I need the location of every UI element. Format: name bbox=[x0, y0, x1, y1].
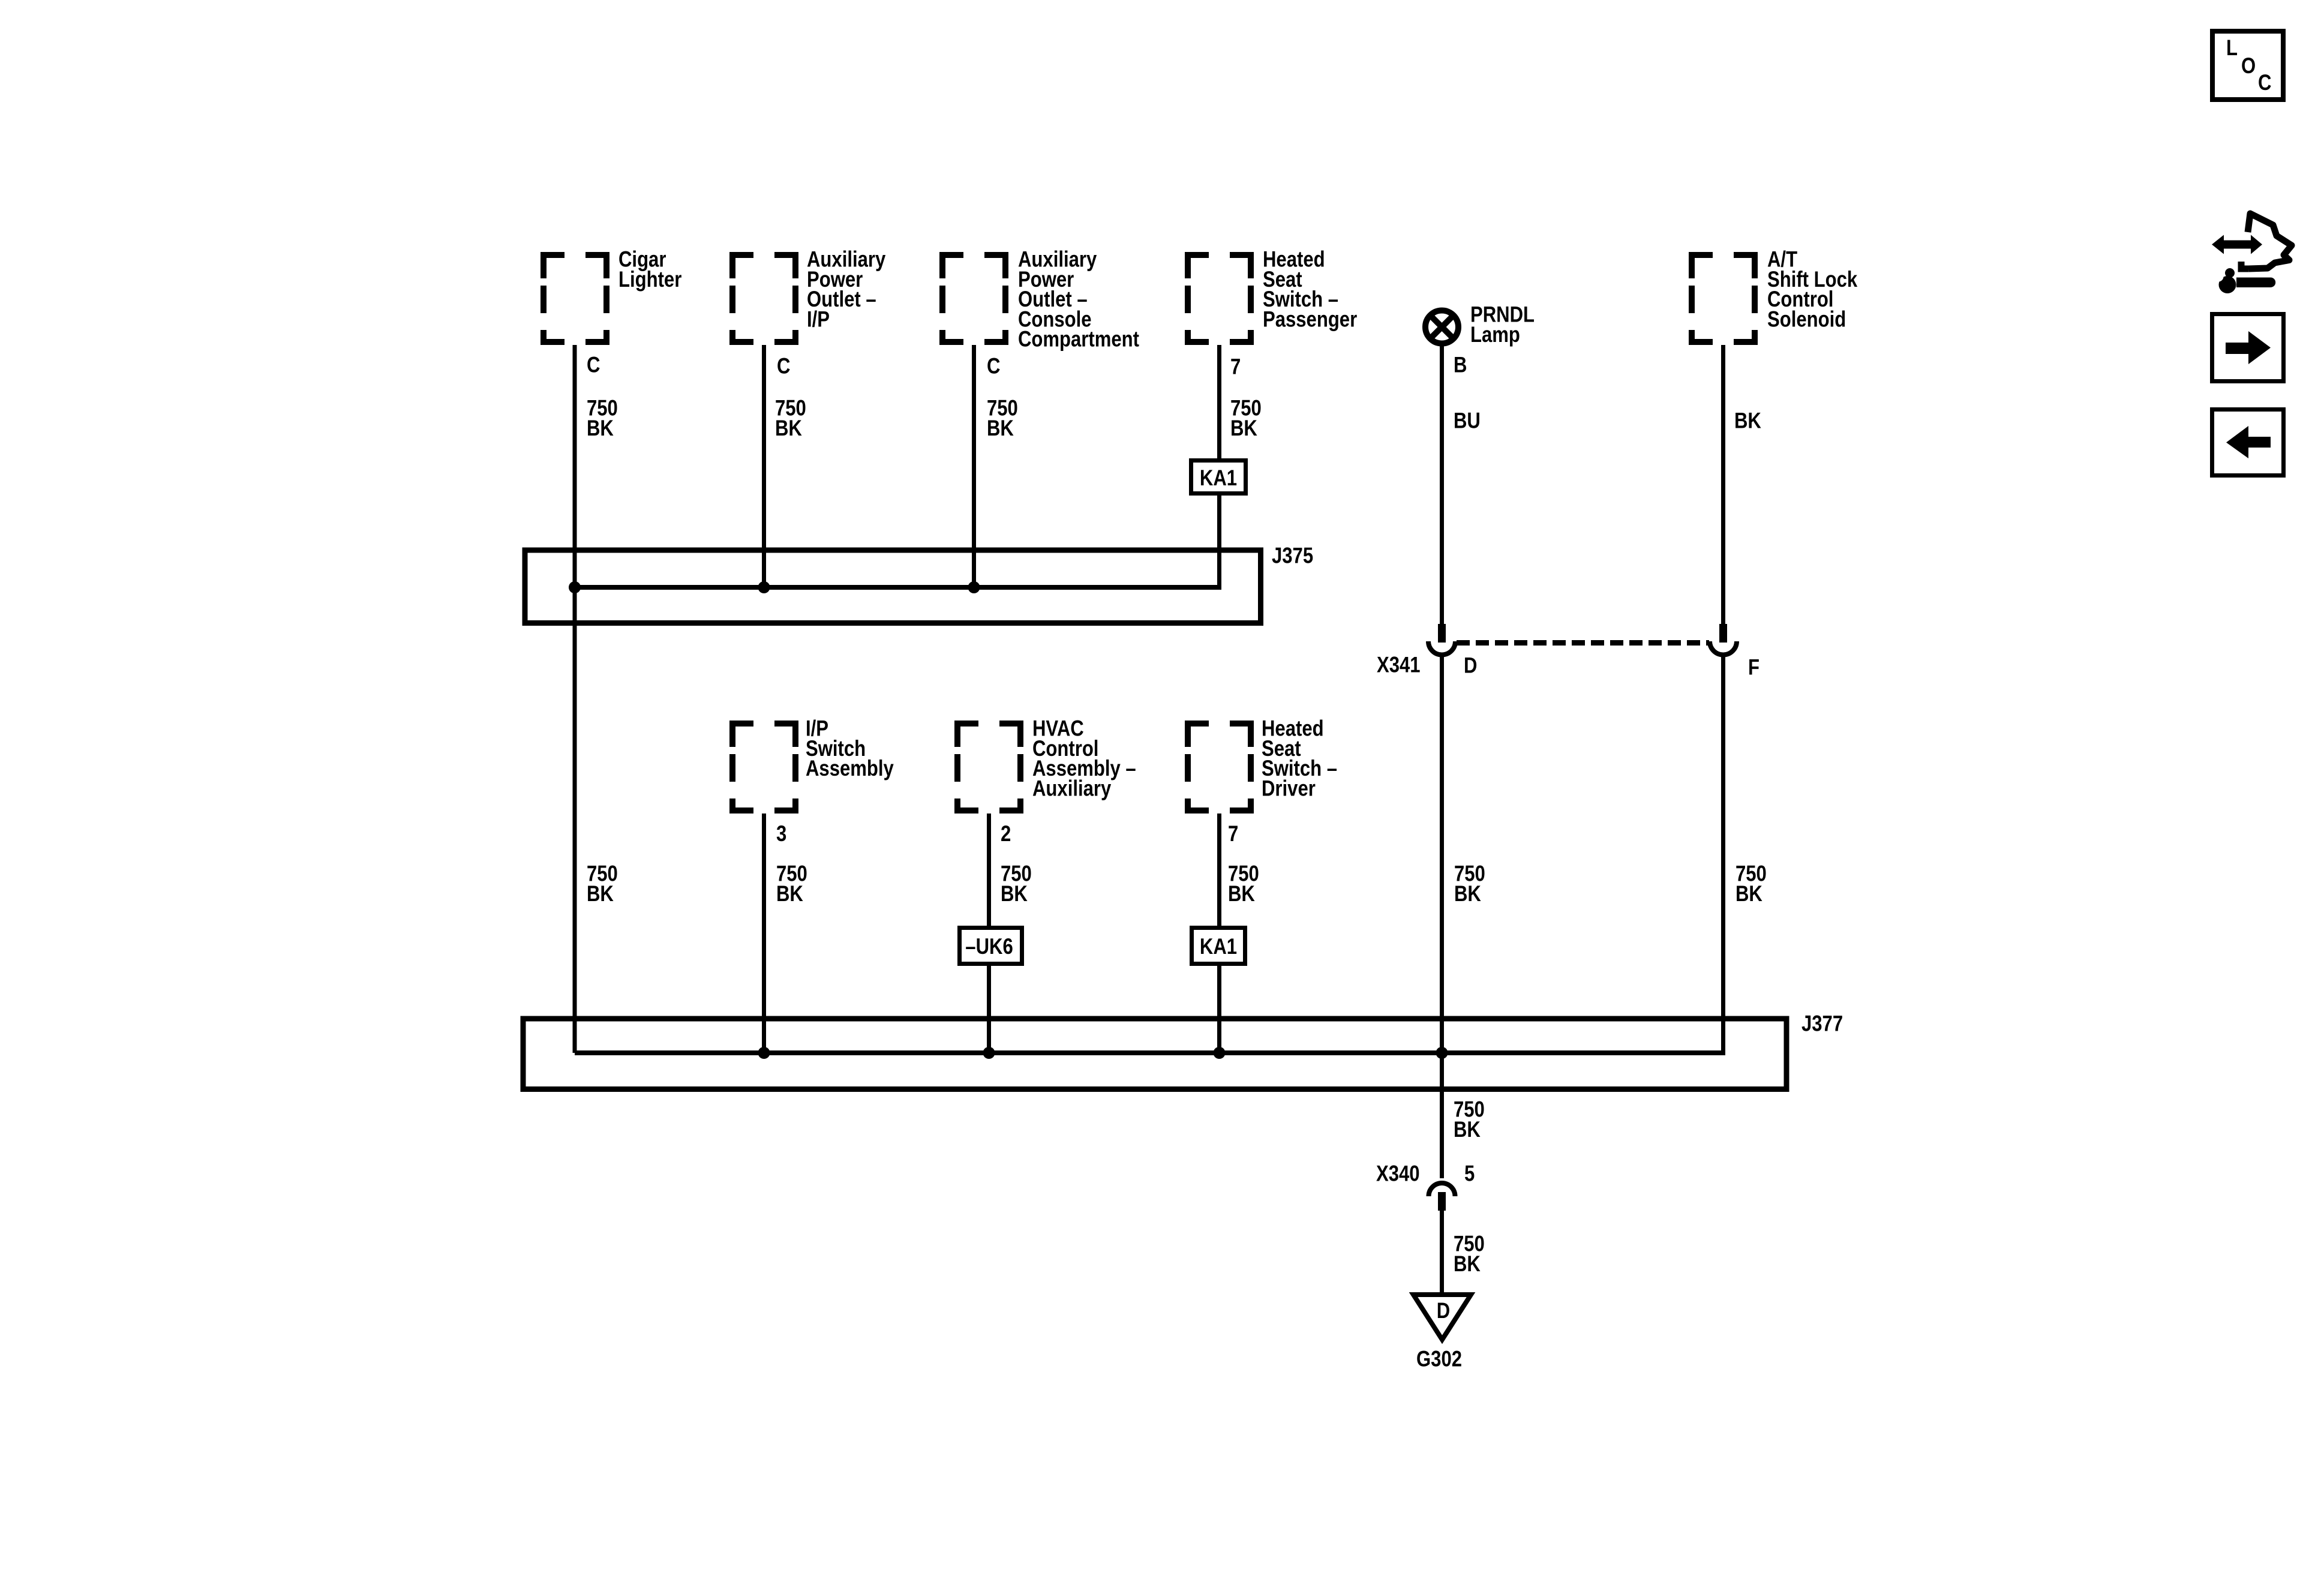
pin 7 of Heated Seat Switch Driver bbox=[1228, 822, 1238, 846]
pin C of Cigar Lighter bbox=[587, 353, 600, 377]
lamp: PRNDL Lamp bbox=[1425, 311, 1458, 344]
junction: I/P switch at J377 bbox=[758, 1047, 770, 1059]
svg-text:KA1: KA1 bbox=[1200, 935, 1237, 959]
svg-text:D: D bbox=[1437, 1299, 1450, 1323]
wire: HVAC Control 2 to UK6 bbox=[987, 813, 991, 927]
svg-text:J377: J377 bbox=[1801, 1011, 1843, 1036]
wire label 750 BK (col 4) bbox=[1230, 396, 1262, 440]
svg-text:BK: BK bbox=[987, 416, 1014, 440]
connector: Cigar Lighter bbox=[541, 252, 609, 345]
svg-text:3: 3 bbox=[776, 822, 786, 846]
svg-text:I/P: I/P bbox=[807, 307, 830, 332]
svg-text:BK: BK bbox=[587, 881, 614, 906]
label: Auxiliary Power Outlet - Console Compartment bbox=[1018, 247, 1139, 352]
junction: heated seat driver at J377 bbox=[1214, 1047, 1226, 1059]
svg-text:X341: X341 bbox=[1377, 653, 1421, 677]
svg-text:BK: BK bbox=[1736, 881, 1762, 906]
wire: Aux Outlet Console C to J375 bbox=[972, 345, 976, 587]
wire: Aux Outlet I/P C to J375 bbox=[762, 345, 766, 587]
svg-text:BK: BK bbox=[587, 416, 614, 440]
label: X340 bbox=[1376, 1161, 1420, 1186]
connector: A/T Shift Lock Control Solenoid bbox=[1689, 252, 1758, 345]
svg-text:C: C bbox=[587, 353, 600, 377]
svg-text:B: B bbox=[1454, 353, 1467, 377]
label: A/T Shift Lock Control Solenoid bbox=[1767, 247, 1858, 332]
wire: PRNDL Lamp B to X341 bbox=[1440, 343, 1444, 624]
wire: UK6 to J377 bbox=[987, 965, 991, 1053]
bus wire inside J375 bbox=[575, 585, 1221, 590]
connector: Heated Seat Switch - Passenger bbox=[1185, 252, 1254, 345]
svg-text:2: 2 bbox=[1001, 822, 1011, 846]
svg-text:Lamp: Lamp bbox=[1470, 322, 1520, 347]
wire: Heated Seat Passenger 7 to KA1 bbox=[1217, 345, 1221, 460]
panel-outline icon with double arrow and wrench bbox=[2212, 214, 2292, 293]
wire label 750 BK (col 3) bbox=[987, 396, 1018, 440]
wire label 750 BK (col 2) bbox=[775, 396, 806, 440]
svg-text:X340: X340 bbox=[1376, 1161, 1420, 1186]
inline connector X341 cavity D bbox=[1428, 624, 1455, 655]
label: Auxiliary Power Outlet - I/P bbox=[807, 247, 885, 332]
svg-text:G302: G302 bbox=[1416, 1347, 1462, 1371]
label: J375 bbox=[1272, 544, 1313, 568]
pin 5 of X340 bbox=[1464, 1161, 1475, 1186]
svg-text:BK: BK bbox=[1001, 881, 1028, 906]
wire: X341 D to J377 bbox=[1440, 655, 1444, 1053]
inline connector X341 cavity F bbox=[1710, 624, 1737, 655]
wire label 750 BK (row2 col1) bbox=[587, 861, 618, 906]
label: Heated Seat Switch - Passenger bbox=[1263, 247, 1357, 332]
svg-text:Passenger: Passenger bbox=[1263, 307, 1357, 332]
pin 3 of I/P Switch Assembly bbox=[776, 822, 786, 846]
wire: A/T Shift Lock Solenoid to X341 bbox=[1721, 345, 1725, 624]
wire label 750 BK (row2 col4) bbox=[1228, 861, 1259, 906]
svg-text:Compartment: Compartment bbox=[1018, 327, 1139, 352]
inline connector X340 cavity 5 bbox=[1429, 1183, 1455, 1211]
svg-text:Auxiliary: Auxiliary bbox=[1032, 776, 1111, 801]
wire label 750 BK (row2 col5) bbox=[1454, 861, 1485, 906]
wire label 750 BK (row2 col2) bbox=[776, 861, 807, 906]
svg-text:KA1: KA1 bbox=[1200, 466, 1237, 491]
label: PRNDL Lamp bbox=[1470, 302, 1535, 347]
svg-text:BK: BK bbox=[1454, 1117, 1481, 1142]
svg-text:Assembly: Assembly bbox=[806, 757, 894, 781]
option box KA1 (driver heated seat) bbox=[1192, 928, 1245, 964]
wire label 750 BK (row2 col3) bbox=[1001, 861, 1032, 906]
junction: cigar lighter at J375 bbox=[569, 581, 581, 593]
svg-text:BK: BK bbox=[776, 881, 803, 906]
splice pack J377 box bbox=[523, 1019, 1786, 1089]
bus wire inside J377 bbox=[575, 1050, 1725, 1055]
svg-text:L: L bbox=[2226, 36, 2238, 61]
dashed connector tie line X341 bbox=[1457, 640, 1709, 646]
svg-text:Solenoid: Solenoid bbox=[1767, 307, 1846, 332]
pin C of Aux Power Outlet Console bbox=[987, 354, 1000, 379]
svg-text:BK: BK bbox=[1454, 881, 1481, 906]
svg-text:C: C bbox=[2258, 71, 2271, 95]
ground symbol G302 bbox=[1413, 1295, 1471, 1340]
splice pack J375 box bbox=[525, 550, 1261, 623]
label: J377 bbox=[1801, 1011, 1843, 1036]
pin D of X341 bbox=[1464, 653, 1477, 678]
wire label 750 BK (below X340) bbox=[1454, 1232, 1485, 1276]
previous-page arrow box bbox=[2212, 410, 2284, 476]
svg-text:BU: BU bbox=[1454, 409, 1481, 433]
pin 7 of Heated Seat Switch Passenger bbox=[1230, 355, 1241, 379]
connector: I/P Switch Assembly bbox=[729, 721, 798, 813]
svg-text:Lighter: Lighter bbox=[618, 267, 681, 292]
wire label 750 BK (below J377) bbox=[1454, 1097, 1485, 1142]
svg-text:BK: BK bbox=[1230, 416, 1257, 440]
junction: aux outlet I/P at J375 bbox=[758, 581, 770, 593]
junction: ground feed at J377 bbox=[1436, 1047, 1448, 1059]
wire label BU (PRNDL) bbox=[1454, 409, 1481, 433]
wire: KA1 row2 to J377 bbox=[1217, 965, 1221, 1053]
wire: KA1 to J375 bbox=[1217, 494, 1221, 587]
pin F of X341 bbox=[1748, 655, 1759, 680]
label: Cigar Lighter bbox=[618, 247, 681, 292]
wire: X341 F to J377 bbox=[1721, 655, 1725, 1053]
connector: Auxiliary Power Outlet - I/P bbox=[729, 252, 798, 345]
svg-text:BK: BK bbox=[1734, 409, 1761, 433]
svg-text:BK: BK bbox=[1228, 881, 1255, 906]
svg-text:J375: J375 bbox=[1272, 544, 1313, 568]
svg-text:Driver: Driver bbox=[1262, 776, 1316, 801]
svg-text:O: O bbox=[2241, 54, 2256, 79]
label: X341 bbox=[1377, 653, 1421, 677]
junction: aux outlet console at J375 bbox=[968, 581, 980, 593]
svg-text:D: D bbox=[1464, 653, 1477, 678]
next-page arrow box bbox=[2212, 314, 2284, 382]
junction: HVAC control at J377 bbox=[983, 1047, 995, 1059]
svg-text:7: 7 bbox=[1230, 355, 1241, 379]
svg-text:C: C bbox=[777, 354, 790, 379]
wire: J377 to X340 bbox=[1440, 1053, 1444, 1178]
wire label 750 BK (col 1) bbox=[587, 396, 618, 440]
wire: I/P Switch Assembly 3 to J377 bbox=[762, 813, 766, 1053]
wire: Cigar Lighter C to J377 bbox=[573, 345, 577, 1053]
svg-text:BK: BK bbox=[1454, 1251, 1481, 1276]
label: I/P Switch Assembly bbox=[806, 716, 894, 781]
wire: X340 to ground G302 bbox=[1440, 1211, 1444, 1295]
label: Heated Seat Switch - Driver bbox=[1262, 716, 1337, 801]
connector: HVAC Control Assembly - Auxiliary bbox=[954, 721, 1023, 813]
option box -UK6 (HVAC auxiliary) bbox=[960, 928, 1022, 964]
wire: Heated Seat Driver 7 to KA1 bbox=[1217, 813, 1221, 927]
svg-text:F: F bbox=[1748, 655, 1759, 680]
pin B of PRNDL Lamp bbox=[1454, 353, 1467, 377]
connector: Heated Seat Switch - Driver bbox=[1185, 721, 1254, 813]
pin C of Aux Power Outlet I/P bbox=[777, 354, 790, 379]
label: HVAC Control Assembly - Auxiliary bbox=[1032, 716, 1136, 801]
svg-text:7: 7 bbox=[1228, 822, 1238, 846]
label: G302 bbox=[1416, 1347, 1462, 1371]
connector: Auxiliary Power Outlet - Console Compartment bbox=[939, 252, 1008, 345]
svg-text:–UK6: –UK6 bbox=[965, 935, 1013, 959]
svg-text:BK: BK bbox=[775, 416, 802, 440]
svg-text:5: 5 bbox=[1464, 1161, 1475, 1186]
wire label 750 BK (row2 col6) bbox=[1736, 861, 1767, 906]
LOC legend box bbox=[2212, 31, 2283, 100]
wire label BK (A/T solenoid) bbox=[1734, 409, 1761, 433]
pin 2 of HVAC Control Assembly bbox=[1001, 822, 1011, 846]
svg-text:C: C bbox=[987, 354, 1000, 379]
option box KA1 (passenger heated seat) bbox=[1191, 461, 1246, 494]
